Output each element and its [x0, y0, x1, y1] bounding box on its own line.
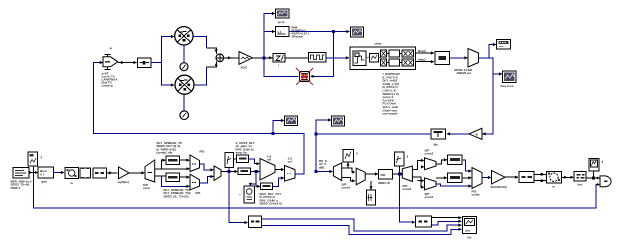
svg-text:chan: chan	[375, 42, 382, 46]
MXL out1 to DLL	[436, 177, 447, 179]
gain triangle G3	[119, 167, 130, 179]
tap down to LINE B	[229, 172, 247, 223]
svg-text:t: t	[240, 193, 241, 197]
upper path: tee up to delay DL1	[155, 160, 189, 169]
wire BL3 to BL2	[432, 217, 462, 219]
DLL out to FMX	[462, 177, 471, 179]
svg-text:SPacket: SPacket	[292, 35, 304, 39]
svg-text:ŝ: ŝ	[41, 156, 43, 160]
MXU out1 to DLU	[436, 160, 447, 164]
source block P1 (Bernoulli/Signal source pentagon)	[103, 54, 118, 69]
scope SC1 (spectrum scope)	[276, 9, 290, 18]
delay block DLX	[237, 155, 249, 163]
svg-text:SEED_DL_TX=[7]: SEED_DL_TX=[7]	[164, 194, 189, 198]
svg-text:P/S: P/S	[200, 150, 205, 154]
wire TB2 to DLX	[234, 158, 237, 160]
tall block TB6	[395, 152, 405, 166]
crossing wires RXT3 to MXU/MXL	[412, 161, 423, 188]
svg-text:dly: dly	[434, 143, 439, 147]
sum junction S1	[216, 54, 224, 62]
svg-text:conv3: conv3	[425, 152, 434, 156]
delay channel block CH	[431, 129, 446, 139]
tall block TB4	[343, 150, 354, 163]
tall probe block TB2	[225, 153, 234, 168]
svg-text:comb: comb	[472, 193, 480, 197]
svg-text:Re(u): Re(u)	[418, 49, 426, 53]
wire M1 out to sum	[193, 37, 218, 86]
block B2 (signal to workspace)	[276, 27, 290, 37]
FIR1 out wire junction	[251, 171, 260, 173]
final mux FMX	[472, 168, 482, 189]
wire BFSK to trapezoid T1	[450, 57, 468, 59]
FMX out to gain G4	[482, 177, 491, 179]
block R1 (modulator small)	[138, 58, 152, 68]
wire: feedback long line bottom chain to source input	[94, 63, 305, 175]
wire P1 to R1	[118, 62, 137, 64]
tall block TB7	[589, 159, 599, 172]
svg-text:Im(u): Im(u)	[418, 58, 425, 62]
RXT1 outputs to RXT2	[342, 168, 355, 172]
parameter text under BB	[382, 72, 400, 116]
wire DL3 to TRP2	[273, 178, 284, 187]
demux DM1	[145, 160, 155, 182]
T1 output fan	[479, 45, 502, 134]
arrow into source	[100, 61, 104, 64]
mux MX1	[190, 155, 200, 172]
svg-text:FIR: FIR	[381, 173, 387, 177]
svg-text:conv4: conv4	[425, 195, 434, 199]
svg-text:conv2: conv2	[403, 187, 412, 191]
delay block DL3	[261, 183, 273, 190]
mux trapezoid T1	[468, 49, 479, 68]
BB sub-icon stack 1	[381, 50, 387, 66]
wire B to big block	[326, 57, 349, 59]
svg-text:Lmax=p: Lmax=p	[102, 84, 114, 88]
block BFSK combine	[435, 52, 450, 65]
wire M2 out to sum	[194, 67, 207, 85]
text under BLa	[11, 180, 32, 190]
wire B2 out down to red block right side	[289, 32, 334, 77]
tall block TB1 (to workspace)	[28, 152, 38, 166]
FIR2 out with vertical through junction	[393, 173, 404, 175]
combiner mux MXC	[214, 166, 221, 181]
big block BB	[350, 47, 416, 70]
wire BLb to BLc	[54, 172, 64, 174]
scope SC4	[285, 116, 298, 126]
block BLb (bernoulli gen)	[38, 167, 54, 178]
demod block square with circle	[547, 172, 562, 184]
labels under delay area	[164, 188, 191, 198]
BB sub-icon stack 2	[389, 50, 400, 66]
block A (filter z)	[273, 54, 285, 63]
tall block TB3 (random source)	[244, 186, 255, 203]
demux RXT1	[333, 163, 341, 181]
svg-text:[symb]_dly: [symb]_dly	[157, 151, 173, 155]
BB sub-icon 2	[370, 54, 379, 63]
gain triangle G1	[239, 52, 253, 65]
lower path	[155, 176, 189, 186]
wire DEMOD to BL4	[562, 176, 574, 178]
svg-text:sel: sel	[288, 160, 292, 164]
wires MX outputs to combiner MXC	[200, 164, 214, 183]
svg-text:gen: gen	[42, 180, 48, 184]
svg-text:SRRC flt: SRRC flt	[378, 181, 390, 185]
wire red block output back to main line riser	[264, 58, 299, 77]
oscillator O2 below mixer M2	[183, 94, 185, 111]
source block BLa	[13, 168, 29, 179]
delay block DLL	[448, 173, 463, 183]
svg-text:-.: -.	[355, 38, 357, 42]
svg-text:AGC: AGC	[241, 66, 249, 70]
svg-text:1%: 1%	[467, 236, 472, 240]
junction dot	[272, 132, 275, 135]
parameter text under TRP2	[260, 192, 282, 206]
scope SC3	[332, 116, 345, 126]
wire CH output going left to RX vertical	[316, 133, 431, 135]
wire DL2 to MX2	[180, 176, 190, 178]
svg-text:freq tx-rx: freq tx-rx	[501, 84, 514, 88]
wire DLX to TRP1	[249, 159, 260, 164]
junction dot RX split	[315, 133, 318, 136]
block BL2 (BER meter)	[463, 217, 477, 234]
vertical from TB6 down to bottom line	[400, 166, 415, 222]
display D1	[497, 40, 511, 50]
RX vertical distribution	[316, 120, 332, 172]
svg-text:amp_lin: amp_lin	[236, 151, 248, 155]
wire BLa out with junction	[29, 172, 38, 174]
wire DL1 to MX1	[180, 159, 190, 161]
mux RXT2	[356, 168, 365, 185]
LINE B from BL1 out stepping down to BL2	[262, 219, 462, 235]
BB internal connectors	[366, 57, 370, 59]
svg-text:conv1: conv1	[342, 186, 351, 190]
mixer M2	[175, 75, 194, 94]
svg-text:P/S: P/S	[196, 191, 201, 195]
MXC out wire with junctions	[221, 171, 237, 173]
mux MX2	[190, 174, 200, 190]
svg-text:-: -	[336, 127, 337, 131]
svg-text:sqrt(Es): sqrt(Es)	[118, 180, 129, 184]
svg-text:AWGN sel: AWGN sel	[457, 71, 472, 75]
junction dot B2 line	[332, 30, 335, 33]
tap up to tall block TB4	[347, 163, 349, 169]
svg-text:0 1: 0 1	[40, 173, 45, 177]
wire G1 to block A with branch up to scopes	[253, 14, 275, 58]
wire BL4 to gate with tap up to TB7	[586, 177, 600, 179]
block BL3	[412, 221, 416, 224]
tall block TB5	[367, 190, 376, 205]
wire S1 to gain G1	[224, 57, 239, 59]
wire RXT2 to FIR2	[365, 173, 377, 175]
block BLc modulator square with circle	[65, 168, 79, 179]
gate (error comparator D-shape)	[600, 176, 611, 187]
block BL4	[574, 172, 586, 182]
block B (waveform)	[309, 53, 327, 63]
svg-text:y.1: y.1	[278, 30, 282, 34]
BB sub-icon stack 3	[402, 50, 414, 66]
red commented-out block RX1	[296, 68, 313, 85]
demux RXT3	[402, 166, 412, 182]
block BLd	[80, 168, 91, 178]
svg-text:SLICER EQ: SLICER EQ	[491, 185, 508, 189]
svg-text:-: -	[289, 126, 290, 130]
BB sub-icon 1	[353, 51, 366, 66]
text under P1	[102, 72, 119, 88]
branch down to DL3 and TB3	[250, 172, 259, 187]
svg-text:sp tx: sp tx	[278, 20, 285, 24]
demux MXL	[425, 178, 437, 190]
wire G3 to demux DM1	[129, 172, 144, 174]
block FIR1	[238, 168, 251, 175]
TRP1 out to TRP2	[275, 169, 284, 171]
demux MXU	[425, 158, 437, 170]
big trapezoid TRP1	[260, 159, 275, 181]
block FIR2	[379, 170, 393, 180]
wire: tap up to scope Tx signal	[273, 121, 283, 134]
block FIR3	[519, 172, 534, 183]
svg-text:FRM=1: FRM=1	[11, 186, 21, 190]
wire G4 to FIR3	[505, 176, 518, 178]
wire FIR3 to DEMOD	[534, 173, 547, 175]
svg-text:dB1: dB1	[319, 165, 325, 169]
svg-text:out=cmplx: out=cmplx	[383, 112, 398, 116]
block BL1	[249, 216, 262, 228]
svg-text:SEED_CH=[3 4]: SEED_CH=[3 4]	[260, 202, 282, 206]
DLU out to FMX via blue L	[462, 160, 471, 171]
wire R1 split to two mixers	[151, 37, 173, 86]
svg-text:conv: conv	[143, 186, 150, 190]
tap up to probe TB2	[228, 168, 230, 172]
scope SC5	[351, 27, 364, 37]
svg-text:sel: sel	[267, 158, 271, 162]
delay block DL1	[166, 156, 180, 165]
scope SC2	[503, 71, 517, 83]
feedback gain triangle G2 (points left)	[469, 128, 482, 139]
gain triangle G4	[492, 171, 506, 185]
mixer M1 (upconverter circle)	[175, 27, 193, 45]
delay block DLU	[448, 155, 463, 165]
MXU direct path down to FMX	[436, 184, 471, 186]
delay block DL2	[166, 173, 180, 182]
wire G2 to channel block CH	[447, 133, 469, 135]
BB outputs to BFSK block	[416, 52, 434, 54]
mux TRP2	[285, 166, 296, 182]
text right of B2	[292, 26, 310, 39]
stem down to TB5	[370, 181, 372, 190]
block BLe	[93, 168, 107, 178]
wire to scope SC5	[334, 31, 350, 33]
tap up to TB1 and down to LINE A	[33, 166, 599, 208]
wire A to B	[285, 57, 309, 59]
wire BLe to gain G3	[107, 172, 118, 174]
oscillator O1 between mixers	[183, 45, 185, 63]
